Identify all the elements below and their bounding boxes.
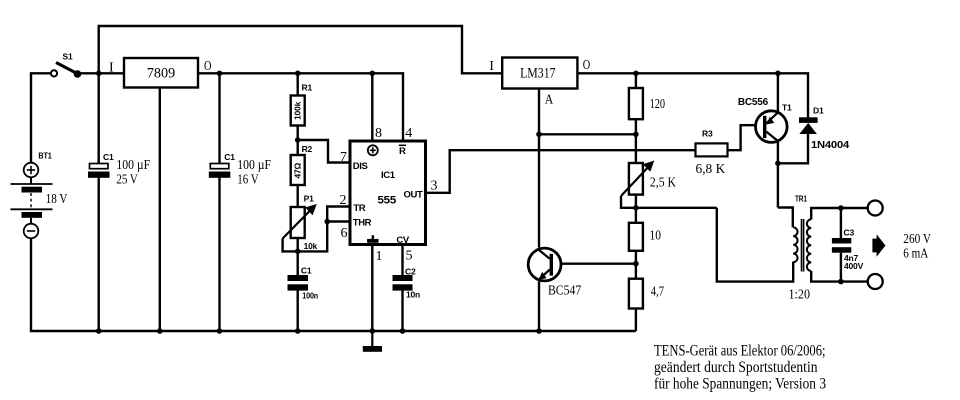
svg-text:25 V: 25 V [116,172,137,187]
svg-text:DIS: DIS [353,161,368,172]
wire 7809 ground pin [159,88,161,332]
junction node rail C2 [400,328,406,334]
svg-text:10n: 10n [406,289,420,299]
junction node 7809 output [217,71,223,77]
wire R3 to T1 base [728,125,764,150]
transistor T1 BC556 [738,97,792,143]
svg-text:2: 2 [340,193,347,208]
wire T1 emitter to rail [777,73,779,112]
wire 120 top lead [635,73,637,88]
junction node rail BC547 emitter [536,328,542,334]
switch S1 [51,52,81,78]
wire C1a lower lead [97,178,99,332]
junction node rail C1a [96,328,102,334]
capacitor C1 100uF 25V [88,152,150,187]
wire adjust node to 120 bottom [539,133,636,135]
svg-text:6 mA: 6 mA [903,247,929,262]
svg-text:18 V: 18 V [46,192,68,207]
resistor 4,7 [629,279,664,309]
wire C3 bottom lead [840,253,842,282]
svg-text:LM317: LM317 [520,66,556,82]
svg-text:OUT: OUT [404,190,423,201]
svg-text:6: 6 [341,226,348,241]
junction node rail 7809 [157,328,163,334]
potentiometer P1 10k [283,194,318,251]
svg-text:TR1: TR1 [795,194,807,204]
svg-text:C2: C2 [405,267,416,277]
wire battery positive to switch [31,73,50,162]
svg-text:16 V: 16 V [237,172,258,187]
capacitor C3 4n7 400V [832,228,864,271]
wire P1 wiper to TR/THR node [283,207,349,252]
svg-text:400V: 400V [844,261,864,271]
IC1 pin 8 plus symbol [368,145,378,155]
wire resistor 10 to resistor 4,7 [635,251,637,279]
resistor R3 6,8K [696,128,728,177]
svg-text:THR: THR [353,217,372,228]
transistor BC547 [528,248,581,298]
op-amp timer IC1 555 box [350,141,426,246]
capacitor C1 100uF 16V [209,152,271,187]
battery BT1 [11,151,68,239]
wire P2 wiper to node below [621,196,717,208]
IC1 internal ground glyph [367,235,378,242]
junction node C3 bottom [838,279,844,285]
svg-text:10: 10 [650,229,662,244]
junction node R1 top [295,71,301,77]
wire T1 collector to transformer primary top [778,208,793,228]
svg-text:1:20: 1:20 [789,288,811,303]
svg-text:47Ω: 47Ω [293,162,303,178]
junction node P1 bottom [295,249,301,255]
wire 120 bottom to P2 top [635,119,637,163]
junction node adjust [536,132,542,138]
svg-text:120: 120 [650,97,666,112]
junction node LM317 output [633,71,639,77]
wire transformer secondary top to output [811,208,868,220]
resistor R1 100k [291,83,313,126]
wire BC547 base [553,263,636,265]
junction node rail C1b [217,328,223,334]
svg-text:R2: R2 [302,144,313,154]
potentiometer 2,5K [621,161,676,197]
svg-text:S1: S1 [63,52,73,62]
svg-text:100 µF: 100 µF [237,158,271,173]
svg-text:C1: C1 [301,266,312,276]
junction node T1 emitter [775,71,781,77]
svg-text:555: 555 [378,195,397,207]
wire transformer secondary bottom to output [811,271,868,282]
wire LM317 adjust line [538,89,540,248]
svg-text:1N4004: 1N4004 [811,140,850,151]
wire T1 collector down [777,141,779,208]
wire 555 pin 8 [371,73,373,139]
wire 555 pin 5 to C2 [401,246,403,276]
svg-text:T1: T1 [782,103,792,113]
junction node TR-THR [324,219,330,225]
regulator LM317 [489,58,590,108]
transformer TR1 [789,194,812,303]
svg-text:C1: C1 [103,152,114,162]
wire C1b lower lead [218,178,220,332]
wire C1b upper lead [218,73,220,163]
junction node 120 bottom [633,132,639,138]
junction node C3 top [838,205,844,211]
svg-text:4,7: 4,7 [651,285,664,300]
svg-text:geändert durch Sportstudentin: geändert durch Sportstudentin [654,359,818,376]
svg-text:R3: R3 [702,128,713,138]
wire 7809 output rail to 555 pin4 [198,73,403,139]
svg-text:I: I [489,59,494,74]
junction node rail pin1 [370,328,376,334]
capacitor C2 10n [393,267,421,300]
junction node P2 bottom [633,205,639,211]
wire switch to 7809 input [79,72,124,74]
svg-text:1: 1 [376,249,383,264]
svg-text:10k: 10k [304,241,318,251]
wire transformer primary bottom return [717,208,793,282]
svg-text:O: O [204,59,212,74]
regulator 7809 [109,58,212,88]
svg-text:7: 7 [340,150,347,165]
wire ground rail [31,238,636,331]
wire 555 OUT pin 3 to long output run [427,150,696,193]
svg-text:BC556: BC556 [738,97,769,108]
svg-text:8: 8 [375,126,382,141]
junction node 555 pin 8 [370,71,376,77]
ground symbol [363,331,382,352]
wire D1 bottom to T1 collector node [778,134,808,163]
junction node rail C1c [295,328,301,334]
junction node T1 collector D1 [775,161,781,167]
svg-text:für hohe Spannungen; Version 3: für hohe Spannungen; Version 3 [654,376,826,393]
wire R1 top lead [297,73,299,95]
wire C1a upper lead [97,73,99,163]
wire P1 bottom to C1c top [297,238,299,275]
svg-text:IC1: IC1 [381,170,396,181]
output voltage label [903,232,931,262]
wire top rail from node I to LM317 input [99,26,502,73]
wire C2 bottom lead [401,290,403,331]
wire R1 to R2 [297,126,299,156]
svg-text:TR: TR [353,203,365,214]
wire C1c bottom lead [297,291,299,332]
resistor R2 47ohm [291,144,313,185]
wire BC547 emitter to rail [538,282,540,332]
svg-text:C1: C1 [224,152,235,162]
svg-text:P1: P1 [304,194,314,204]
wire 555 THR pin 6 stub [327,220,348,222]
svg-text:TENS-Gerät aus Elektor 06/2006: TENS-Gerät aus Elektor 06/2006; [654,343,826,360]
svg-text:3: 3 [431,179,438,194]
svg-text:100k: 100k [293,101,303,120]
svg-text:5: 5 [406,249,413,264]
svg-text:100n: 100n [302,291,318,301]
svg-text:BT1: BT1 [38,151,52,161]
resistor 10 [629,223,661,251]
svg-text:100 µF: 100 µF [116,158,150,173]
wire 4,7 bottom to rail [635,309,637,332]
junction node divider 10-4,7 [633,261,639,267]
wire R2 to P1 [297,185,299,207]
junction node R1-R2 [295,137,301,143]
caption text [654,343,826,393]
output terminal bottom [868,274,883,289]
IC1 pin 4 reset bar label [399,145,406,157]
svg-text:CV: CV [396,235,409,246]
svg-text:R: R [399,146,406,157]
svg-text:A: A [545,92,554,107]
wire node R1-R2 to 555 DIS pin 7 [298,140,349,163]
wire 555 pin 1 to ground rail [371,246,373,332]
resistor 120 [629,88,665,119]
junction node at switch/7809 input [96,71,102,77]
svg-text:D1: D1 [813,106,824,116]
svg-text:BC547: BC547 [548,284,581,299]
wire P2 bottom to resistor 10 [635,195,637,223]
svg-text:C3: C3 [844,228,855,238]
svg-text:6,8 K: 6,8 K [696,162,726,177]
wire C3 top lead [840,208,842,238]
output arrow [872,234,885,256]
svg-text:7809: 7809 [147,66,175,82]
svg-text:4: 4 [405,126,412,141]
output terminal top [868,201,883,216]
wire LM317 output rail to D1 top [578,73,809,117]
diode D1 1N4004 [799,106,850,152]
svg-text:O: O [583,58,591,73]
svg-text:I: I [109,61,114,76]
svg-text:R1: R1 [302,83,313,93]
capacitor C1 100n [288,266,319,301]
svg-text:2,5 K: 2,5 K [650,176,676,191]
svg-text:260 V: 260 V [903,232,931,247]
